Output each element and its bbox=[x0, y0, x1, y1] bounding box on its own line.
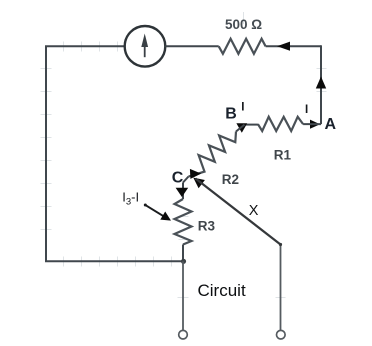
arrow right at C bbox=[190, 169, 201, 179]
wire top left segment bbox=[45, 45, 125, 47]
wire R3 bottom to junction bbox=[182, 245, 184, 262]
wire left vertical bbox=[45, 46, 47, 261]
arrow up-left on X line bbox=[193, 178, 205, 189]
wire right vertical bbox=[320, 45, 322, 124]
svg-text:R3: R3 bbox=[198, 218, 216, 233]
resistor 500 ohm bbox=[219, 39, 266, 54]
terminal right bbox=[277, 330, 286, 339]
wire R1 right segment bbox=[303, 123, 321, 125]
wire C down to R3 bbox=[182, 183, 184, 200]
arrow right into A bbox=[310, 120, 320, 129]
svg-text:I: I bbox=[241, 102, 244, 114]
wire R2 bottom to node C bbox=[183, 177, 189, 183]
wire right bottom vertical bbox=[280, 244, 282, 331]
svg-text:B: B bbox=[225, 105, 237, 122]
X line diagonal bbox=[196, 179, 281, 245]
svg-text:500 Ω: 500 Ω bbox=[225, 17, 262, 32]
arrow up on right wire bbox=[316, 77, 326, 89]
arrow on top wire pointing left bbox=[277, 42, 290, 51]
junction dot bbox=[181, 259, 186, 264]
wire R2 top segment bbox=[236, 125, 245, 132]
resistor R2 bbox=[189, 132, 237, 177]
terminal left bbox=[179, 330, 188, 339]
current source I3 bbox=[125, 26, 166, 67]
I3-I pointer line bbox=[145, 205, 164, 217]
resistor R1 bbox=[258, 117, 303, 131]
wire bottom horizontal bbox=[45, 260, 184, 262]
wire top right segment bbox=[266, 45, 321, 47]
current source arrow bbox=[144, 42, 146, 57]
svg-text:X: X bbox=[249, 203, 259, 219]
svg-text:R1: R1 bbox=[274, 147, 292, 162]
I3-I pointer arrowhead bbox=[160, 212, 171, 221]
arrow down below C bbox=[176, 188, 189, 197]
arrow down at B bbox=[236, 123, 247, 133]
svg-text:I: I bbox=[305, 104, 308, 116]
svg-text:R2: R2 bbox=[222, 172, 239, 187]
resistor R3 bbox=[175, 199, 192, 245]
svg-text:A: A bbox=[325, 116, 337, 133]
wire junction down to terminal bbox=[182, 261, 184, 330]
corner dot on X line bbox=[279, 243, 282, 246]
svg-text:Circuit: Circuit bbox=[198, 281, 246, 300]
wire R1 left segment to node B bbox=[245, 124, 258, 126]
grid ticks bbox=[41, 12, 327, 298]
wire top middle segment bbox=[165, 45, 218, 47]
